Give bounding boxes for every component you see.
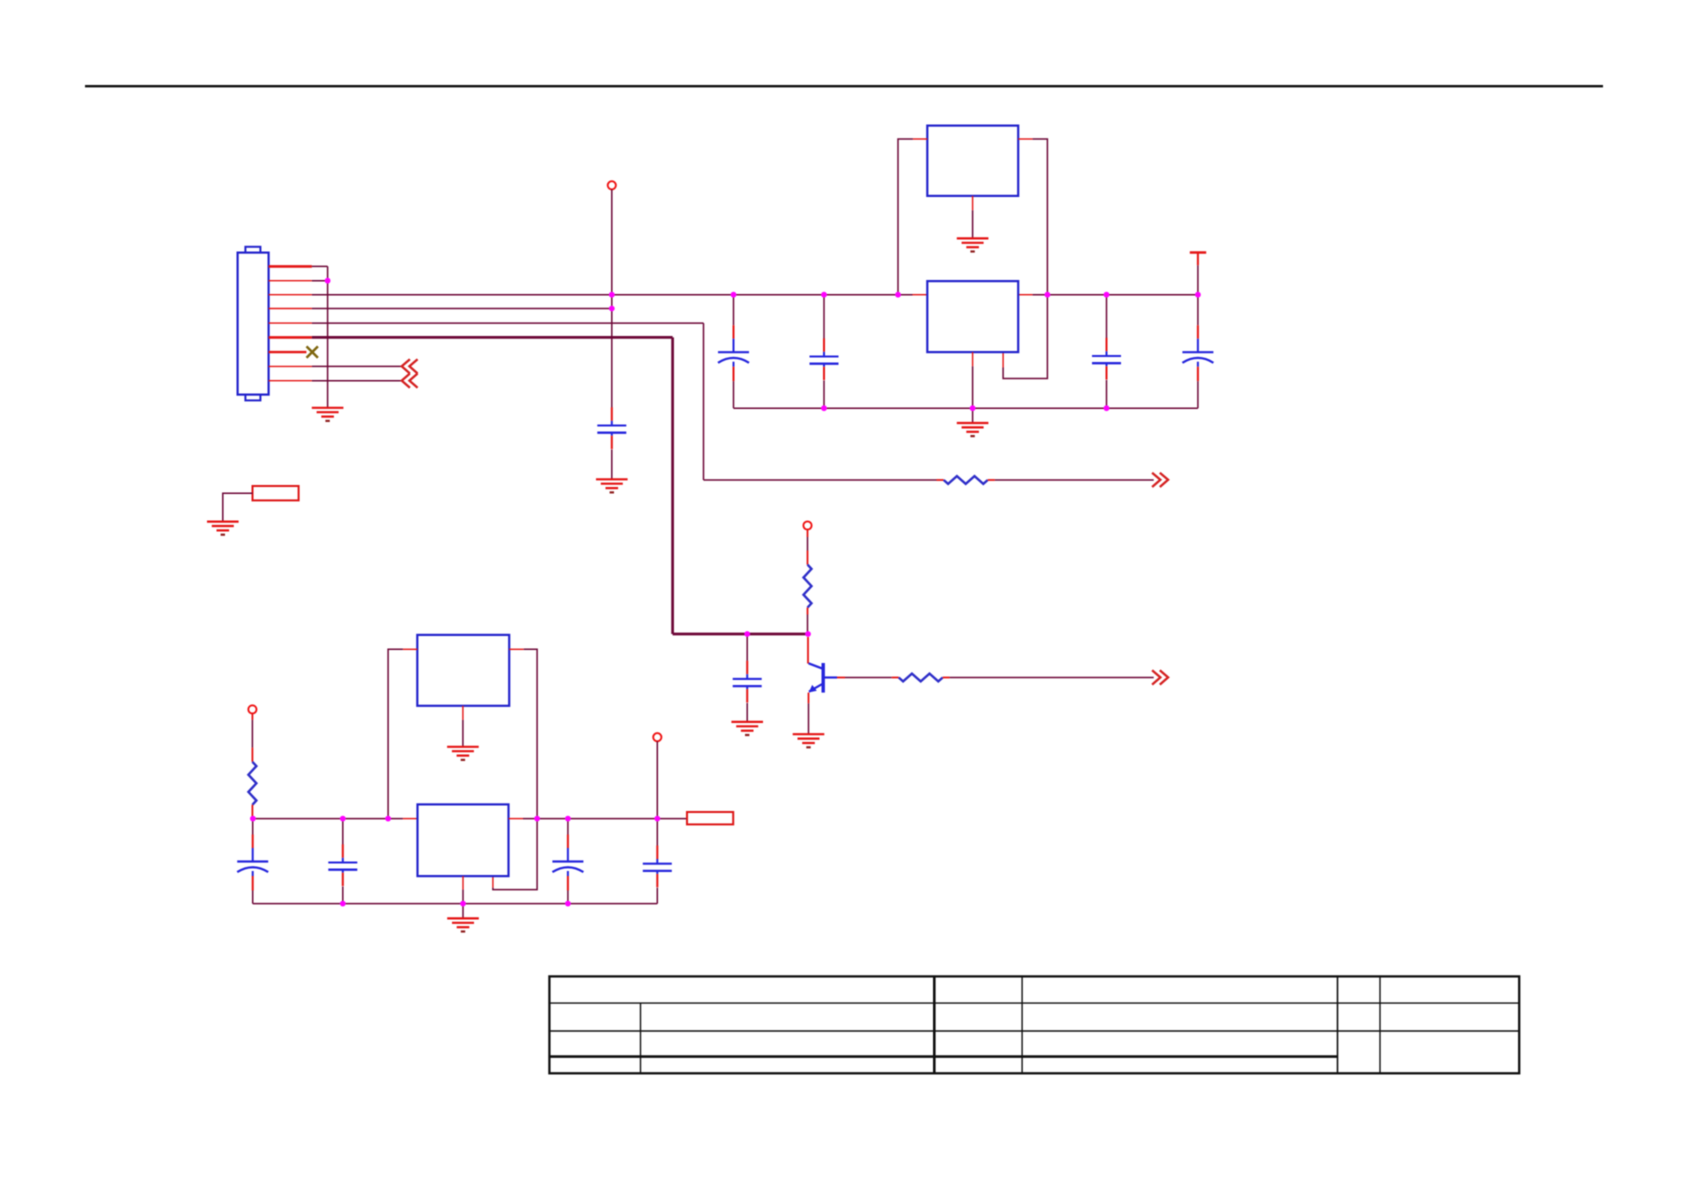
wire T2 to R1 [251,720,253,748]
U5 left pin stub [403,818,418,820]
off-page chevrons out 2 [1152,670,1168,684]
table column line d [1337,976,1339,1073]
wire bus1 right section [1033,294,1198,296]
table column line c [1021,976,1023,1073]
J1 pin 5 stub [269,322,312,324]
U2 right pin stub [1018,138,1032,140]
Q1 emitter diagonal [809,684,823,692]
capacitor C4 [1182,325,1213,381]
wire LB1 to ground [223,493,253,521]
terminal T3 [653,733,661,741]
connector J1 bottom tab [245,394,260,400]
wire LL bottom bus [253,903,658,905]
U4 left pin stub [403,648,417,650]
U4 right pin stub [509,648,524,650]
IC U4 box [417,635,509,706]
capacitor C4 bottom wire [1197,381,1199,408]
wire T4 to R2 [807,537,809,551]
junction dots [325,278,331,284]
IC U2 box [927,126,1018,196]
wire pin8 [312,365,403,367]
capacitor C3 top wire [1106,295,1108,338]
connector J1 top tab [245,247,260,253]
table column line e [1379,976,1381,1073]
capacitor C2 [810,338,839,380]
U3 lower-right pin stub [1002,352,1004,367]
ground under U4 [447,747,479,760]
table column line b thick [933,976,936,1073]
capacitor C6 bottom wire [342,887,344,904]
table column line a [640,1003,642,1073]
R1 top lead [251,748,253,762]
wire LL bus left [252,818,403,820]
capacitor C7 top wire [567,819,569,835]
wire R2 to collector node [807,615,809,635]
table row line 3 thick partial [549,1055,1337,1058]
net label box LB2 [687,812,733,824]
wire C9 to ground [611,450,613,480]
J1 pin 4 stub [269,308,312,310]
wire bus3 elbow down [703,323,705,480]
U5 bottom pin stub [462,876,464,890]
wire to resistor R3 [704,479,937,481]
J1 pin 7 stub [269,351,307,353]
R3 right lead [988,479,995,481]
wire stub to ground [972,408,974,423]
capacitor C9 [597,407,626,449]
U1 left pin stub [913,294,928,296]
Q1 emitter arrow [809,685,817,693]
U5 lower-right pin stub [492,876,494,888]
no-connect X on pin 7 [307,346,318,357]
capacitor C1 top wire [733,295,735,326]
capacitor C3 bottom wire [1106,380,1108,408]
capacitor C2 bottom wire [823,381,825,409]
capacitor C5 [237,835,268,891]
table row line 1 [549,1002,1519,1004]
wire stub to ground LL [462,904,464,919]
J1 pin 2 stub [269,280,312,282]
capacitor C5 top wire [252,819,254,835]
wire R4 to off-page [950,677,1154,679]
capacitor C8 [643,846,672,888]
IC U3 box [927,281,1018,352]
resistor R1 [248,762,256,805]
terminal T4 [803,521,811,529]
Q1 base stub [825,676,838,678]
wire U5 bottom to LL bottom bus [462,890,464,904]
capacitor C6 [328,844,357,886]
U5 right pin stub [509,818,524,820]
R1 bottom lead [251,805,253,819]
capacitor C10 [733,661,762,703]
J1 pin 6 stub [269,336,312,339]
wire pin1 to vertical [312,265,328,267]
T4 lead red [807,530,809,537]
wire pin5 bus3 [312,322,704,324]
R3 left lead [937,479,944,481]
ground under LB1 [207,522,239,535]
R4 left lead [892,677,899,679]
R2 top lead [807,551,809,565]
wire U2 bottom to ground [972,210,974,238]
net label box LB1 [253,486,299,500]
wire emitter to ground [808,703,810,734]
wire U4 bottom to ground [462,720,464,747]
J1 pin 8 stub [269,365,312,367]
J1 pin 9 stub [269,380,312,382]
wire U2 left elbow down to bus1 [898,139,913,295]
ground under C10 [731,722,763,735]
IC U5 box [418,804,509,876]
transistor Q1 base bar [822,663,825,693]
terminal T2 [248,705,256,713]
capacitor C1 [718,325,749,381]
wire bottom bus top-right block [734,407,1198,409]
ground under LL bus [447,918,479,931]
wire bus1 main rail [312,294,913,296]
J1 pin 3 stub [269,294,312,296]
capacitor C10 top wire [746,634,748,661]
wire vertical to connector ground [327,266,329,407]
wire T3 down to LL bus [656,741,658,818]
capacitor C3 [1092,338,1121,380]
power bar VCC [1190,251,1206,253]
T2 lead red [251,714,253,720]
table row line 2 [549,1030,1519,1032]
J1 pin 1 stub [269,265,312,268]
wire U4 left elbow down to LL bus [388,649,403,818]
capacitor C1 bottom wire [733,381,735,408]
resistor R3 [944,476,988,484]
wire pin9 [312,380,403,382]
ground under connector [312,408,344,421]
wire pin6 thick bus4 [312,336,673,339]
Q1 base lead red [837,677,845,679]
capacitor C5 bottom wire [252,891,254,904]
wire pin2 [312,280,328,282]
wire U2 right elbow down [1003,139,1047,379]
Q1 emitter lead [808,693,810,704]
wire thick horizontal to transistor [673,633,808,636]
U4 bottom pin stub [462,706,464,720]
title rule [85,85,1603,87]
capacitor C8 top wire [656,819,658,846]
wire bus1 to bus2 junction [611,295,613,309]
wire power to bus1 [1197,265,1199,294]
Q1 collector diagonal [809,663,824,669]
wire LL bus right [523,818,687,820]
resistor R4 [899,674,943,682]
wire R3 to off-page [995,479,1154,481]
wire down to capacitor C9 [611,309,613,408]
R4 right lead [943,677,950,679]
capacitor C2 top wire [823,295,825,339]
wire T1 down to bus1 [611,189,613,294]
capacitor C6 top wire [342,819,344,845]
off-page chevrons pin9 [402,374,418,388]
wire base to R4 [845,677,892,679]
U2 bottom pin stub [972,196,974,210]
ground under C9 [596,479,628,492]
capacitor C7 [552,835,583,891]
wire U3 bottom to bottom bus [972,366,974,408]
resistor R2 [804,565,812,608]
wire pin4 bus2 [312,308,612,310]
capacitor C7 bottom wire [567,891,569,904]
terminal T1 [608,181,616,189]
capacitor C4 top wire [1197,295,1199,326]
off-page chevrons out 1 [1152,473,1168,487]
table outer border [549,976,1519,1073]
power stem red [1197,253,1199,266]
connector J1 body [238,253,269,395]
ground under bottom bus [957,423,989,436]
U1 right pin stub [1018,294,1032,296]
off-page chevrons pin8 [402,359,418,373]
U3 bottom pin stub [972,352,974,366]
U2 left pin stub [913,138,927,140]
R2 bottom lead [807,608,809,615]
capacitor C8 bottom wire [656,888,658,904]
wire U4 right elbow down [493,649,537,889]
wire pin6 thick vertical [671,337,674,634]
ground under U2 [957,238,989,251]
capacitor C10 bottom wire [746,703,748,722]
Q1 collector lead [807,637,809,664]
ground under Q1 emitter [793,734,825,747]
